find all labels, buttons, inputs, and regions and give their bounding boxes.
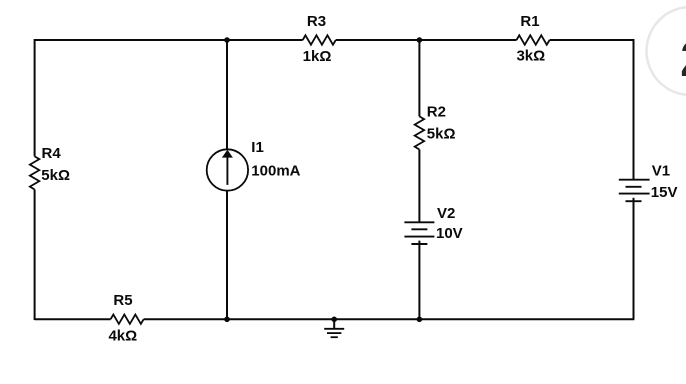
svg-text:R2: R2	[427, 104, 446, 121]
svg-text:R5: R5	[113, 292, 132, 309]
current source I1 100mA	[207, 139, 301, 191]
wire: top net, R1 to top-right corner	[550, 39, 635, 41]
svg-text:5kΩ: 5kΩ	[427, 126, 456, 143]
battery V1 15V	[619, 162, 678, 201]
svg-text:R3: R3	[307, 13, 326, 30]
wire: top net, left corner to R3	[35, 39, 303, 41]
svg-text:R4: R4	[42, 145, 62, 162]
wire: right net, corner down to V1	[633, 39, 635, 180]
wire: bottom net, R5 to bottom-right corner	[144, 318, 635, 320]
node B junction dot (top, R2 branch)	[417, 37, 423, 43]
wire: I1 branch, node A down to current source	[226, 40, 228, 149]
svg-text:V2: V2	[437, 205, 455, 222]
svg-text:4kΩ: 4kΩ	[108, 327, 137, 344]
svg-text:I1: I1	[251, 139, 264, 156]
wire: right net, V1 to bottom-right corner	[633, 198, 635, 319]
wire: left net, top corner down to R4	[34, 39, 36, 156]
node C junction dot (bottom, I1 branch)	[224, 317, 230, 323]
svg-text:15V: 15V	[651, 184, 678, 201]
svg-text:R1: R1	[520, 13, 539, 30]
resistor R4 5kΩ	[30, 145, 70, 190]
wire: R2 to V2	[418, 150, 420, 223]
corner badge circle with number 2	[647, 7, 686, 95]
resistor R1 3kΩ	[516, 13, 549, 65]
resistor R3 1kΩ	[303, 13, 336, 65]
wire: R2 branch, node B down to R2	[418, 40, 420, 116]
svg-text:2: 2	[680, 31, 686, 87]
ground symbol	[324, 319, 344, 337]
resistor R2 5kΩ	[415, 104, 456, 150]
node GND junction dot	[331, 317, 337, 323]
wire: left net, R4 down to bottom-left corner	[34, 190, 36, 321]
svg-text:3kΩ: 3kΩ	[516, 48, 545, 65]
node D junction dot (bottom, V2 branch)	[417, 317, 423, 323]
wire: bottom net, left corner to R5	[35, 318, 111, 320]
svg-text:5kΩ: 5kΩ	[41, 167, 70, 184]
svg-text:10V: 10V	[436, 225, 463, 242]
wire: V2 branch, battery down to node D	[418, 241, 420, 320]
wire: top net, R3 to R1	[336, 39, 517, 41]
node A junction dot (top, I1 branch)	[224, 37, 230, 43]
svg-text:1kΩ: 1kΩ	[303, 48, 332, 65]
resistor R5 4kΩ	[108, 292, 143, 345]
svg-text:V1: V1	[652, 162, 670, 179]
wire: I1 branch, current source down to node C	[226, 191, 228, 320]
battery V2 10V	[404, 205, 462, 244]
svg-text:100mA: 100mA	[251, 162, 300, 179]
